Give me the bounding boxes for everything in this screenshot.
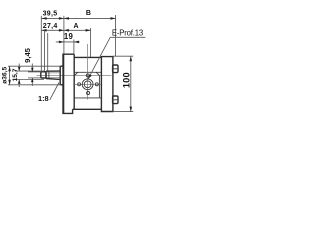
svg-text:E-Prof.13: E-Prof.13 <box>112 28 143 37</box>
port vertical centerline <box>87 44 89 100</box>
arrowhead 100 top <box>130 56 133 61</box>
dimension line 27,4 / A <box>42 29 91 31</box>
rear screw head upper <box>113 65 118 73</box>
arrowhead 9,45 top <box>31 68 34 72</box>
port square right edge <box>98 76 100 98</box>
svg-text:100: 100 <box>121 72 131 88</box>
extension line tip dia bottom (9,45) <box>28 77 41 79</box>
arrowhead B left <box>64 17 69 20</box>
arrowhead 15,7 top <box>18 67 21 71</box>
extension line flange face <box>63 16 65 54</box>
port bolt hole right <box>95 83 98 86</box>
shaft centerline <box>37 74 112 76</box>
svg-text:9,45: 9,45 <box>23 47 32 63</box>
port bolt hole bottom <box>87 92 90 95</box>
arrowhead 36,5 bottom <box>8 80 11 85</box>
thread crest line lower <box>46 77 60 79</box>
extension line shaft dia bottom (15,7) <box>15 79 44 81</box>
extension line taper start <box>47 33 49 71</box>
arrowhead 9,45 bottom <box>31 78 34 82</box>
svg-text:1:8: 1:8 <box>38 94 49 103</box>
screw head lower center tick <box>112 99 119 101</box>
svg-text:19: 19 <box>64 32 74 41</box>
svg-text:39,5: 39,5 <box>43 10 58 17</box>
dimension line 9,45 lower <box>31 78 33 86</box>
arrowhead 36,5 top <box>8 66 11 71</box>
svg-text:15,7: 15,7 <box>12 68 19 81</box>
mounting flange plate <box>63 54 74 113</box>
shaft taper top edge <box>46 70 60 72</box>
port face bottom edge <box>75 97 102 99</box>
shaft thread tip block <box>41 72 46 78</box>
dimension line 19 <box>56 41 80 43</box>
flange face thick edge <box>63 54 65 113</box>
arrowhead 39,5 right <box>59 17 64 20</box>
svg-text:B: B <box>86 10 91 17</box>
thread runout line <box>48 71 50 78</box>
arrowhead A left <box>64 29 69 32</box>
cover top thin continuation <box>113 55 133 57</box>
arrowhead 19 right (outside) <box>74 41 79 44</box>
extension line pilot bottom (dia 36,5) <box>8 84 60 86</box>
port face top edge <box>75 71 102 73</box>
port bolt hole top <box>86 74 89 77</box>
screw head upper center tick <box>112 68 119 70</box>
arrowhead 39,5 left <box>42 17 47 20</box>
dimension line 39,5 / B <box>42 17 116 19</box>
extension line A right <box>90 28 92 57</box>
extension line thread end <box>44 31 46 72</box>
dimension line 9,45 upper <box>31 64 33 72</box>
arrowhead 19 left (outside) <box>59 41 64 44</box>
svg-text:ø36,5: ø36,5 <box>2 67 9 84</box>
arrowhead A right <box>86 29 91 32</box>
port horizontal centerline <box>73 83 101 85</box>
shaft big end junction <box>45 71 47 79</box>
rear cover <box>101 57 113 112</box>
dimension line 15,7 lower <box>18 80 20 88</box>
leader E-Prof.13 <box>88 37 110 78</box>
arrowhead 27,4 left <box>42 29 47 32</box>
port bolt hole left <box>78 83 81 86</box>
arrowhead 100 bottom <box>130 107 133 112</box>
extension line shaft dia top (15,7) <box>15 70 44 72</box>
arrowhead 27,4 right <box>59 29 64 32</box>
pilot collar <box>60 66 63 85</box>
rear screw head lower <box>113 96 118 104</box>
thread crest line upper <box>46 72 60 74</box>
dimension line 15,7 upper <box>18 64 20 72</box>
port circle outer <box>82 79 93 90</box>
extension line pilot top (dia 36,5) <box>8 65 60 67</box>
port circle inner <box>84 81 91 88</box>
extension line B right <box>115 15 117 56</box>
extension line flange back (19 right) <box>73 40 75 54</box>
port square left chamfer <box>75 72 78 75</box>
leader underline <box>110 36 145 38</box>
dimension line dia 36,5 <box>9 66 11 85</box>
extension line shaft tip <box>40 16 42 71</box>
svg-text:27,4: 27,4 <box>43 23 58 30</box>
dim 100 extension bottom <box>113 111 133 113</box>
shaft taper bottom edge <box>46 78 60 81</box>
pump body <box>73 57 102 109</box>
arrowhead 15,7 bottom <box>18 80 21 84</box>
leader arrowhead <box>88 75 92 79</box>
dimension line 100 <box>130 56 132 111</box>
svg-text:A: A <box>73 23 78 30</box>
extension line tip dia top (9,45) <box>28 71 41 73</box>
leader 1:8 <box>50 83 59 100</box>
port square right chamfer <box>96 72 99 75</box>
arrowhead B right <box>111 17 116 20</box>
